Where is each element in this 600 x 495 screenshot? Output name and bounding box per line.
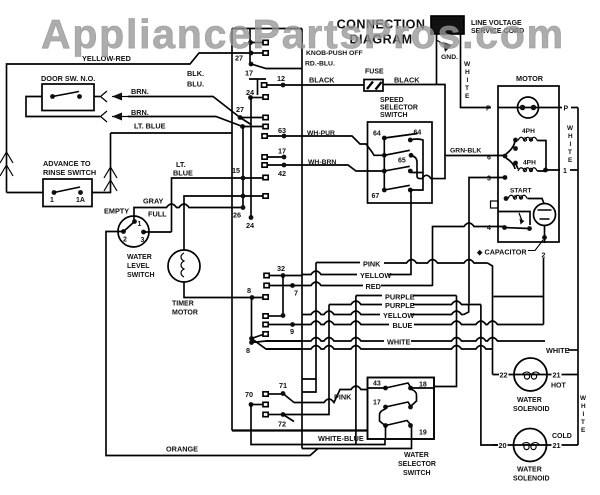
- svg-text:◆ CAPACITOR: ◆ CAPACITOR: [476, 248, 527, 257]
- svg-text:4PH: 4PH: [522, 128, 535, 135]
- svg-text:BLU.: BLU.: [187, 80, 204, 89]
- node to rd-blu: [249, 62, 254, 67]
- wire internal start switch: [498, 212, 530, 226]
- arrow brn#2: [112, 116, 128, 118]
- wire red row: [264, 283, 269, 287]
- wire yellow-red (top border): [7, 53, 252, 193]
- wire lt blue upper: [111, 132, 233, 134]
- wire purple row 2: [329, 301, 382, 305]
- svg-text:SWITCH: SWITCH: [127, 272, 155, 279]
- trunk wire x251 lower / node 8 pair: [251, 298, 253, 343]
- label 15 / lt blue wire: [232, 166, 240, 175]
- wire pink row: [316, 262, 360, 264]
- svg-text:RED: RED: [366, 282, 381, 291]
- svg-text:BLK.: BLK.: [187, 69, 204, 78]
- svg-text:21: 21: [553, 441, 561, 450]
- wire door switch right to brn#1: [94, 96, 100, 98]
- svg-text:RINSE SWITCH: RINSE SWITCH: [43, 168, 96, 177]
- label water solenoid hot: [513, 397, 550, 413]
- node 42 / wh-brn wire: [262, 163, 267, 167]
- label WHITE-BLUE: [318, 434, 364, 443]
- svg-text:8: 8: [247, 286, 251, 295]
- contact 19 pair: [383, 423, 388, 428]
- node 24: [246, 88, 255, 97]
- blade bottom: [386, 421, 411, 426]
- svg-text:WH-PUR: WH-PUR: [307, 130, 335, 137]
- svg-text:32: 32: [277, 264, 285, 273]
- label WHITE vertical right of motor: [567, 125, 574, 164]
- svg-text:H: H: [568, 133, 573, 140]
- svg-text:PINK: PINK: [363, 260, 381, 269]
- node 63 / wh-pur wire: [278, 126, 286, 135]
- node 9: [263, 322, 268, 326]
- svg-text:YELLOW: YELLOW: [360, 271, 391, 280]
- terminal 20: [493, 444, 514, 446]
- contact 65 pair: [382, 153, 387, 158]
- svg-text:SWITCH: SWITCH: [380, 112, 408, 119]
- start capacitor / centrifugal circle: [534, 204, 556, 226]
- node at x283 bottom: [263, 314, 268, 318]
- svg-text:BLUE: BLUE: [173, 169, 193, 178]
- svg-text:SOLENOID: SOLENOID: [513, 476, 550, 483]
- terminal 3: [487, 176, 491, 183]
- svg-text:DOOR SW. N.O.: DOOR SW. N.O.: [41, 74, 95, 83]
- svg-text:22: 22: [500, 371, 508, 380]
- door switch contacts and blade: [50, 94, 55, 99]
- water level contacts: [132, 219, 137, 224]
- svg-text:42: 42: [278, 169, 286, 178]
- cold water solenoid: [514, 429, 547, 462]
- svg-text:AppliancePartsPros.com: AppliancePartsPros.com: [41, 11, 565, 57]
- svg-text:12: 12: [277, 74, 285, 83]
- water level switch: [118, 216, 149, 247]
- wire 70 down to selector: [251, 405, 385, 445]
- label CAPACITOR: [476, 248, 527, 257]
- contact 18: [419, 382, 427, 389]
- advance to rinse switch labels: [43, 159, 96, 177]
- contact 17: [373, 400, 381, 407]
- blade node27: [240, 118, 251, 125]
- label YELLOW-RED: [82, 54, 131, 63]
- label water level switch: [127, 254, 155, 279]
- svg-text:SELECTOR: SELECTOR: [398, 461, 436, 468]
- svg-text:H: H: [581, 403, 586, 410]
- svg-text:LT. BLUE: LT. BLUE: [134, 122, 166, 131]
- node 72: [263, 412, 268, 416]
- svg-text:PINK: PINK: [334, 393, 352, 402]
- svg-text:SPEED: SPEED: [380, 97, 404, 104]
- line voltage service cord (black box): [431, 16, 464, 34]
- watermark AppliancePartsPros.com: [41, 11, 565, 57]
- svg-text:W: W: [580, 395, 587, 402]
- svg-text:WHITE: WHITE: [387, 338, 411, 347]
- svg-text:LEVEL: LEVEL: [127, 263, 150, 270]
- terminal 21 cold: [547, 444, 579, 446]
- svg-text:24: 24: [246, 221, 255, 230]
- svg-text:64: 64: [373, 131, 381, 138]
- svg-text:20: 20: [499, 441, 507, 450]
- ground symbol: [437, 40, 446, 45]
- trunk wire x243: [242, 127, 244, 208]
- terminal 21 hot: [547, 374, 578, 376]
- svg-text:ADVANCE TO: ADVANCE TO: [43, 159, 91, 168]
- timer motor coil: [181, 253, 184, 277]
- svg-text:EMPTY: EMPTY: [104, 207, 129, 216]
- label GRN-BLK: [450, 148, 481, 155]
- wire lt blue lower: [172, 178, 264, 232]
- wire advance switch left: [7, 192, 44, 194]
- wire purple row 1: [356, 295, 382, 297]
- label MOTOR: [516, 74, 544, 83]
- node 7: [290, 283, 295, 288]
- node 71: [279, 381, 287, 390]
- svg-text:21: 21: [553, 371, 561, 380]
- motor protector circle: [518, 97, 539, 118]
- wire gray: [134, 204, 243, 222]
- svg-text:65: 65: [398, 158, 406, 165]
- svg-text:GRAY: GRAY: [143, 197, 164, 206]
- svg-text:PURPLE: PURPLE: [385, 301, 415, 310]
- svg-text:GRN-BLK: GRN-BLK: [450, 148, 481, 155]
- svg-text:17: 17: [278, 147, 286, 156]
- label P left: [486, 106, 491, 113]
- svg-text:3: 3: [487, 176, 491, 183]
- svg-text:ORANGE: ORANGE: [166, 445, 198, 454]
- svg-text:1: 1: [50, 197, 54, 204]
- wire blue row: [293, 321, 389, 325]
- wire fuse right (black): [383, 85, 445, 156]
- wire 19 contacts down: [385, 426, 387, 439]
- node 27: [249, 51, 254, 56]
- contact mid pair: [382, 169, 387, 174]
- svg-text:BRN.: BRN.: [131, 108, 149, 117]
- label P right / wire to white line: [559, 107, 578, 109]
- svg-text:SOLENOID: SOLENOID: [513, 406, 550, 413]
- wire row f (to hot solenoid): [266, 346, 493, 350]
- wire timer motor bottom to node 8: [184, 282, 263, 298]
- blade 43-18: [386, 383, 411, 388]
- svg-text:W: W: [567, 125, 574, 132]
- svg-text:COLD: COLD: [552, 433, 572, 440]
- svg-text:YELLOW: YELLOW: [383, 311, 414, 320]
- wire timer top feed: [184, 196, 263, 250]
- wire white row: [266, 338, 384, 342]
- hot water solenoid: [514, 358, 547, 391]
- wire door switch left loop to brn#2: [26, 97, 100, 117]
- svg-text:RD.-BLU.: RD.-BLU.: [305, 61, 335, 68]
- wire jumper x493-x543: [494, 296, 544, 298]
- svg-text:WATER: WATER: [404, 452, 429, 459]
- svg-text:T: T: [465, 85, 469, 92]
- svg-text:T: T: [581, 419, 585, 426]
- node 26: [233, 211, 241, 220]
- svg-text:8: 8: [246, 346, 250, 355]
- svg-text:I: I: [583, 411, 585, 418]
- svg-text:WHITE: WHITE: [546, 346, 570, 355]
- label ORANGE: [166, 445, 198, 454]
- svg-text:E: E: [581, 427, 586, 434]
- svg-text:H: H: [465, 69, 470, 76]
- wire 4 from red riser: [433, 223, 505, 286]
- wire water level 2 down (orange run): [106, 232, 318, 456]
- svg-text:1A: 1A: [76, 197, 85, 204]
- contact 67: [372, 193, 380, 200]
- svg-text:64: 64: [414, 130, 422, 137]
- label WHITE (vertical, service): [464, 61, 471, 100]
- label LT. BLUE (lower): [173, 160, 193, 178]
- svg-text:MOTOR: MOTOR: [172, 310, 198, 317]
- svg-text:17: 17: [245, 69, 253, 78]
- svg-text:WH-BRN: WH-BRN: [308, 159, 336, 166]
- label LT. BLUE (upper): [134, 122, 166, 131]
- blade 71: [283, 394, 294, 403]
- wire 67 down to yellow row: [410, 190, 412, 275]
- svg-text:BLACK: BLACK: [394, 76, 420, 85]
- node 32: [277, 264, 285, 273]
- svg-text:67: 67: [372, 193, 380, 200]
- svg-text:17: 17: [373, 400, 381, 407]
- node 24 lower: [249, 215, 254, 220]
- svg-text:E: E: [465, 93, 470, 100]
- svg-text:BLACK: BLACK: [309, 76, 335, 85]
- wire speed sw internal right link 64-67: [410, 139, 423, 190]
- svg-text:WHITE-BLUE: WHITE-BLUE: [318, 434, 364, 443]
- wire service cord line2 (white) down to motor P: [461, 34, 492, 108]
- trunk wire x251 mid: [250, 98, 252, 218]
- svg-text:2: 2: [123, 237, 127, 244]
- wiper common line: [383, 138, 385, 190]
- door switch box: [42, 84, 94, 111]
- label water solenoid cold: [513, 467, 550, 483]
- contact 64 right: [414, 130, 422, 137]
- timer motor: [168, 250, 200, 282]
- terminal 6: [487, 155, 491, 162]
- wire water level 3 to lt blue: [144, 231, 172, 233]
- svg-text:WATER: WATER: [517, 397, 542, 404]
- terminal 22/27 top drop: [249, 29, 251, 65]
- svg-text:1: 1: [563, 168, 567, 175]
- svg-text:FULL: FULL: [148, 210, 167, 219]
- label GND.: [441, 54, 458, 61]
- wire service cord line1 down to fuse black wire: [436, 34, 438, 85]
- wire purple1 riser bottom: [355, 296, 357, 445]
- wire 72 row to purple riser: [283, 305, 329, 415]
- svg-text:63: 63: [278, 126, 286, 135]
- wire brn#2 to terminal: [128, 117, 243, 127]
- contact 64 left: [373, 131, 381, 138]
- svg-text:43: 43: [373, 381, 381, 388]
- contact 43: [373, 381, 381, 388]
- label timer motor: [172, 301, 198, 317]
- wire 2 down: [543, 258, 545, 325]
- svg-text:BRN.: BRN.: [131, 87, 149, 96]
- svg-text:15: 15: [232, 166, 240, 175]
- svg-text:6: 6: [487, 155, 491, 162]
- speed selector switch labels: [380, 97, 418, 119]
- wire speed sw output hook: [411, 155, 505, 178]
- svg-text:19: 19: [419, 430, 427, 437]
- water selector switch box: [368, 378, 435, 440]
- svg-text:70: 70: [245, 390, 253, 399]
- blade 72: [283, 415, 294, 422]
- motor winding 4PH upper: [522, 128, 535, 135]
- svg-text:START: START: [510, 188, 532, 195]
- wire brn#1 to terminal 27: [128, 97, 240, 118]
- advance to rinse switch box: [43, 179, 92, 207]
- svg-text:TIMER: TIMER: [172, 301, 194, 308]
- hook 17 down: [380, 409, 386, 426]
- wire 3 to left vertical: [469, 178, 505, 304]
- svg-text:I: I: [570, 141, 572, 148]
- trunk wire x302 (rd-blu feed): [301, 29, 303, 449]
- svg-text:P: P: [564, 106, 569, 113]
- node 22 top: [248, 40, 253, 45]
- svg-text:BLUE: BLUE: [393, 321, 413, 330]
- label 17 and tee terminal: [245, 69, 253, 78]
- wire winding1 right to junction: [537, 141, 546, 171]
- wire trunk x302 bottom to node 19: [302, 426, 412, 449]
- hook 18 down: [411, 389, 417, 406]
- label WHITE vertical far right: [580, 395, 587, 434]
- svg-text:72: 72: [278, 420, 286, 429]
- wire row-f lead-in: [252, 339, 303, 350]
- heavy bottom trunk line: [232, 429, 367, 431]
- node 12 black wire to fuse: [277, 74, 285, 83]
- motor box: [498, 86, 559, 242]
- wire yellow row 2: [302, 311, 380, 315]
- node 70: [245, 390, 253, 399]
- node 27 lower pair: [236, 105, 244, 114]
- label WHITE right: [546, 346, 570, 355]
- node 17 mid: [278, 147, 286, 156]
- svg-text:1: 1: [138, 221, 142, 228]
- svg-text:I: I: [467, 77, 469, 84]
- chevron cut marks on left border: [0, 152, 13, 176]
- svg-text:W: W: [464, 61, 471, 68]
- arrow brn#1: [112, 96, 128, 98]
- svg-text:HOT: HOT: [551, 383, 567, 390]
- start winding: [510, 188, 532, 195]
- label water selector switch: [398, 452, 436, 477]
- speed selector switch box: [368, 122, 433, 203]
- svg-text:E: E: [568, 157, 573, 164]
- svg-text:WATER: WATER: [517, 467, 542, 474]
- svg-text:P: P: [486, 106, 491, 113]
- svg-text:71: 71: [279, 381, 287, 390]
- wire P through protector: [498, 107, 559, 109]
- wire advance switch right with chevrons: [92, 133, 111, 193]
- svg-text:MOTOR: MOTOR: [516, 74, 544, 83]
- svg-text:FUSE: FUSE: [365, 69, 384, 76]
- top trunk jumper wire: [232, 28, 302, 30]
- svg-text:9: 9: [290, 327, 294, 336]
- svg-text:T: T: [568, 149, 572, 156]
- blade 64: [384, 134, 417, 139]
- wire pink row 2 (to 43): [294, 386, 368, 403]
- node 1 junction / wire to white: [543, 168, 548, 173]
- svg-text:4PH: 4PH: [523, 160, 536, 167]
- labels BLK. BLU.: [187, 69, 204, 89]
- svg-text:26: 26: [233, 211, 241, 220]
- labels KNOB-PUSH OFF / RD.-BLU.: [305, 50, 363, 68]
- svg-text:3: 3: [141, 237, 145, 244]
- svg-text:7: 7: [294, 289, 298, 298]
- advance switch contacts and blade: [52, 190, 57, 195]
- wire white row lead-in: [252, 341, 303, 343]
- blade 17: [386, 402, 411, 407]
- trunk wire x283: [282, 276, 284, 316]
- terminal 22: [493, 374, 515, 376]
- svg-text:WATER: WATER: [127, 254, 152, 261]
- connector chevrons brn wires: [101, 91, 108, 122]
- svg-text:SWITCH: SWITCH: [403, 470, 431, 477]
- main trunk wire (x232): [231, 29, 233, 431]
- svg-text:SELECTOR: SELECTOR: [380, 105, 418, 112]
- label COLD: [552, 433, 572, 440]
- motor winding 4PH lower: [523, 160, 536, 167]
- capacitor node 2: [542, 235, 547, 240]
- wire x316 riser: [302, 263, 317, 393]
- labels BRN. BRN.: [131, 87, 149, 117]
- capacitor pointer: [528, 240, 543, 251]
- svg-text:27: 27: [236, 105, 244, 114]
- terminal 4: [487, 225, 491, 232]
- wire white right side down: [577, 108, 579, 446]
- fuse: [365, 69, 384, 76]
- wire yellow row 1: [302, 271, 357, 275]
- switch blades at 6: [506, 141, 515, 169]
- notch on motor box: [491, 201, 499, 208]
- actuator arrow: [519, 213, 523, 222]
